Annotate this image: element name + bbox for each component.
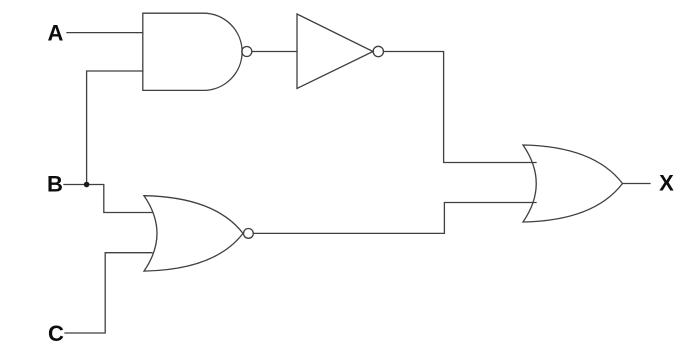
junction node B: [84, 182, 90, 188]
nor gate U3 body: [144, 196, 243, 271]
inverter U2 triangle: [297, 14, 373, 89]
nor gate U3 output bubble: [244, 229, 254, 239]
svg-text:X: X: [659, 170, 674, 195]
nand gate U1 body: [143, 13, 242, 90]
svg-text:C: C: [48, 321, 64, 346]
svg-text:A: A: [48, 21, 64, 46]
wire B stub: [64, 184, 87, 186]
or gate U4 body: [523, 145, 623, 222]
svg-text:B: B: [47, 171, 63, 196]
wire C to NOR bottom input: [65, 253, 152, 333]
wire NAND output to inverter: [252, 51, 297, 53]
wire inverter output down to OR top input: [384, 52, 537, 163]
wire A to NAND top input: [67, 32, 143, 34]
wire B vertical up to NAND: [87, 71, 143, 185]
wire B right and down to NOR top input: [87, 185, 152, 213]
wire OR output to X: [623, 183, 651, 185]
inverter U2 output bubble: [373, 46, 383, 56]
nand gate U1 output bubble: [242, 47, 252, 57]
wire NOR output up to OR bottom input: [253, 203, 536, 234]
